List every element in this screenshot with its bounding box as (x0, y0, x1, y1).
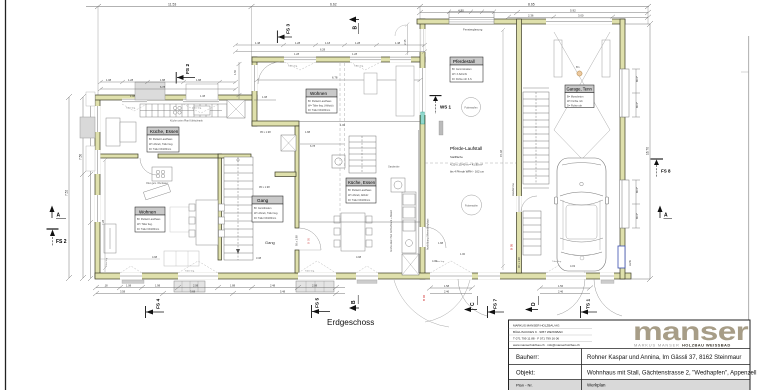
door arc bottom house entry (394, 280, 470, 327)
gray annex block top (135, 82, 165, 100)
svg-text:Erdgeschoss: Erdgeschoss (327, 318, 374, 327)
door arc party wall stable (425, 227, 446, 248)
hatched duct hall (281, 135, 296, 151)
door arc TS1 (594, 279, 622, 316)
room label box Wohnen bottom-left (135, 207, 165, 232)
svg-text:2.35: 2.35 (403, 39, 407, 45)
svg-text:2.08: 2.08 (193, 284, 199, 288)
svg-text:D= Täfer NK180mm: D= Täfer NK180mm (137, 228, 159, 231)
stable-garage divider wall (517, 19, 522, 273)
garage door leaf left (554, 40, 562, 77)
Erdgeschoss title (327, 318, 374, 327)
svg-text:80.5*: 80.5* (635, 187, 639, 193)
svg-text:80.5*: 80.5* (635, 102, 639, 108)
svg-text:7.28: 7.28 (101, 219, 105, 225)
window openings top-left wall (122, 99, 219, 105)
svg-text:3.38: 3.38 (256, 256, 262, 260)
svg-text:manser: manser (633, 316, 748, 346)
dimension labels above house top-right wall (255, 41, 401, 52)
entrance step left (174, 281, 205, 292)
svg-text:D= Fichte roh: D= Fichte roh (567, 105, 583, 108)
room label box Kueche Essen left (147, 127, 179, 152)
Heubuehne rotated text (511, 183, 515, 196)
svg-text:AZK: AZK (628, 260, 632, 266)
svg-text:B 05: B 05 (307, 237, 311, 244)
svg-text:D= Fichte roh 3-S: D= Fichte roh 3-S (452, 78, 472, 81)
svg-text:T 071 799 11 88 · F 071 799: T 071 799 11 88 · F 071 799 16 06 (513, 337, 559, 341)
room label box Gang (252, 196, 283, 222)
window opening V marks top walls (122, 62, 381, 113)
dimension labels above house top-left wall (106, 78, 202, 89)
barn staircase upper dims (523, 88, 549, 188)
title block frame (509, 320, 751, 390)
svg-text:Küche, Essen: Küche, Essen (348, 180, 376, 185)
svg-text:.18: .18 (104, 284, 108, 288)
room label box Pferdestall (450, 57, 483, 82)
svg-text:95 x 1.98: 95 x 1.98 (260, 130, 271, 134)
red label B05 barn (510, 243, 514, 250)
window box ticks barn right wall (632, 69, 640, 228)
svg-text:B= Parkett Landhaus: B= Parkett Landhaus (308, 100, 332, 103)
dashed line corridor (418, 130, 420, 273)
window step wall (252, 65, 258, 91)
FS 4 marker bottom (146, 299, 165, 318)
futterraufe circle 1 (462, 98, 481, 117)
svg-text:1.08: 1.08 (130, 94, 136, 98)
Bn circle car front (580, 256, 584, 260)
svg-text:6.78: 6.78 (310, 144, 316, 148)
door arc garage divider (521, 196, 537, 212)
svg-text:1.48: 1.48 (395, 41, 401, 45)
svg-text:1.18: 1.18 (325, 41, 331, 45)
svg-text:A: A (664, 213, 668, 219)
porch door arc (395, 25, 406, 36)
FS 7 marker bottom (488, 299, 505, 318)
svg-text:2.46: 2.46 (444, 290, 450, 294)
svg-text:11.53: 11.53 (168, 3, 176, 7)
wall sample mark WS1 (439, 121, 443, 135)
room label box Kueche Essen right (346, 178, 376, 203)
svg-text:B= Gumtiboden: B= Gumtiboden (254, 207, 272, 210)
svg-text:FS 2: FS 2 (56, 239, 67, 245)
svg-text:D= Täfer NK180mm: D= Täfer NK180mm (149, 148, 171, 151)
svg-text:Futterraufen: Futterraufen (465, 204, 479, 207)
teal mark party wall (421, 112, 425, 124)
interior wall hall top horizontal (252, 121, 299, 126)
house staircase (224, 157, 253, 260)
porch dim house-barn (405, 23, 409, 56)
svg-text:7.50: 7.50 (79, 154, 83, 160)
barn staircase upper (523, 92, 549, 184)
right unit staircase (349, 136, 376, 173)
svg-text:www.manserholzbau.ch · info@: www.manserholzbau.ch · info@manserholzba… (513, 343, 580, 347)
svg-text:90 x 1.98: 90 x 1.98 (517, 257, 521, 268)
sideboard annotation (146, 182, 168, 185)
svg-text:HOLZBAU WEISSBAD: HOLZBAU WEISSBAD (682, 343, 731, 348)
svg-text:Täfer lieg.: Täfer lieg. (305, 270, 315, 273)
manser logo caption (634, 343, 731, 348)
svg-text:B= Parkett Landhaus: B= Parkett Landhaus (149, 138, 173, 141)
A section marker right (658, 206, 673, 219)
dimension ticks above house top-left wall (98, 80, 238, 91)
svg-text:W= Abrieb, Altholz: W= Abrieb, Altholz (348, 194, 369, 197)
left dimension line 1 (66, 94, 72, 281)
svg-text:B= Parkett Landhaus: B= Parkett Landhaus (348, 189, 372, 192)
top extension line right (647, 7, 649, 25)
svg-text:95 x 1.98: 95 x 1.98 (259, 185, 270, 189)
svg-text:FS 8: FS 8 (661, 169, 671, 174)
svg-text:Küche, Essen: Küche, Essen (150, 129, 179, 134)
svg-text:A: A (57, 213, 61, 219)
dining table left unit (189, 200, 225, 245)
svg-text:2.08: 2.08 (312, 284, 318, 288)
svg-text:8.65: 8.65 (528, 3, 535, 7)
svg-text:C: C (470, 302, 476, 306)
svg-text:6.28: 6.28 (320, 48, 326, 52)
kitchen counter left unit (140, 104, 227, 117)
svg-text:4.98: 4.98 (152, 255, 158, 259)
kitchen annotation text (170, 120, 203, 123)
left dimension line 3 label (87, 126, 91, 132)
garage door leaf right (602, 40, 610, 77)
interior wall stairwell top (218, 154, 251, 158)
Fensterglasung label (463, 28, 483, 32)
svg-text:1.28: 1.28 (295, 41, 301, 45)
left dimension line 1 label (65, 190, 69, 196)
car hood lines (563, 200, 600, 250)
red label B06 bottom (422, 294, 426, 301)
svg-text:3.58: 3.58 (120, 290, 126, 294)
dining table right unit (334, 213, 372, 251)
svg-text:B= Parkett Landhaus: B= Parkett Landhaus (137, 218, 161, 221)
svg-text:4.20 x 10.40 m = 41.80 m²: 4.20 x 10.40 m = 41.80 m² (450, 163, 483, 167)
svg-text:Täfer lieg.: Täfer lieg. (185, 270, 195, 273)
barn top dimension row 1 labels (458, 9, 576, 13)
svg-text:B= Gummimatten: B= Gummimatten (452, 68, 472, 71)
svg-text:Objekt:: Objekt: (516, 371, 535, 377)
Gang floor text (265, 240, 275, 245)
dashed beam line hall (340, 63, 345, 222)
svg-text:1.28: 1.28 (352, 52, 358, 56)
TS 1 marker bottom (581, 299, 598, 318)
room label box Wohnen top-right (306, 89, 337, 113)
bottom wall (95, 273, 631, 279)
door arc bottom stable entry (458, 279, 487, 316)
barn top dimension row 1 (417, 10, 651, 15)
svg-text:Rohner Kaspar und Annina, Im G: Rohner Kaspar und Annina, Im Gässli 37, … (587, 355, 741, 361)
svg-text:1.28: 1.28 (128, 78, 134, 82)
svg-text:D= Täfer NK180mm: D= Täfer NK180mm (308, 109, 330, 112)
title row Plan-Nr (509, 380, 750, 390)
D section marker bottom (525, 296, 539, 312)
window openings left wall (95, 106, 101, 222)
sheet right border (748, 36, 750, 390)
bottom dimension cluster barn 2 (537, 286, 593, 294)
svg-text:6.78: 6.78 (160, 85, 166, 89)
svg-text:Heubühne: Heubühne (511, 183, 515, 196)
barn staircase lower (523, 211, 541, 255)
svg-text:6.62: 6.62 (330, 3, 337, 7)
kitchen counter right unit (402, 192, 416, 253)
svg-text:1.00: 1.00 (460, 252, 466, 256)
porch dim label (403, 39, 407, 45)
svg-text:Täfer lieg.: Täfer lieg. (192, 107, 202, 110)
title block address cell (509, 324, 593, 348)
svg-text:Futterraufen: Futterraufen (464, 106, 478, 109)
blue AZK box (618, 246, 632, 268)
svg-text:1.56: 1.56 (558, 284, 564, 288)
svg-text:2.48: 2.48 (270, 284, 276, 288)
FS 8 marker (651, 159, 672, 177)
svg-text:15.48: 15.48 (499, 150, 503, 157)
window boxes barn right wall (620, 69, 629, 228)
room label box Garage Tenn (565, 85, 594, 108)
svg-text:Stallfläche: Stallfläche (450, 155, 463, 159)
svg-text:Ausbildung Wienerberghaus: Ausbildung Wienerberghaus (427, 218, 430, 250)
svg-text:1.00: 1.00 (340, 123, 346, 127)
svg-text:1.88: 1.88 (438, 241, 444, 245)
A section marker left (50, 206, 67, 219)
door arc hall (299, 228, 321, 250)
svg-text:WS 1: WS 1 (440, 105, 451, 110)
svg-text:1.28: 1.28 (355, 41, 361, 45)
hatched storage right unit (402, 254, 419, 275)
svg-text:B: B (351, 300, 357, 304)
title row Bauherr (516, 355, 741, 361)
sofa bottom-left unit (104, 224, 116, 253)
svg-text:80.5*: 80.5* (635, 213, 639, 219)
window party wall (420, 68, 426, 115)
svg-text:W= Täfer lieg.: W= Täfer lieg. (137, 223, 153, 226)
top extension line barn (419, 7, 421, 20)
bottom dimension cluster barn 1 labels (444, 284, 450, 294)
B section marker bottom (349, 295, 359, 311)
svg-text:3.00: 3.00 (578, 13, 584, 17)
svg-text:Bn: Bn (576, 65, 580, 69)
left dimension line 3 (88, 95, 93, 281)
svg-text:4.03: 4.03 (432, 259, 438, 263)
svg-text:Garage, Tenn: Garage, Tenn (567, 87, 593, 92)
svg-text:1.38: 1.38 (200, 94, 206, 98)
openings bottom wall (120, 273, 614, 280)
opening barn top wall garage door (546, 19, 612, 25)
garderobe text (388, 166, 400, 169)
dimension ticks above house top-right wall (233, 43, 427, 54)
svg-text:Ofen gem. Ofenbauer: Ofen gem. Ofenbauer (146, 182, 168, 185)
party wall house/stable (420, 19, 425, 279)
car (555, 158, 609, 271)
B section marker top (349, 17, 359, 35)
opening party wall door (420, 227, 426, 247)
barn right wall (620, 19, 625, 279)
interior wall hall vertical upper (295, 126, 299, 228)
car roof rect (566, 205, 597, 239)
svg-text:1.50: 1.50 (233, 69, 237, 75)
opening barn top wall glazing (449, 18, 494, 25)
house top-right wall (252, 57, 425, 62)
svg-text:4.98: 4.98 (356, 255, 362, 259)
svg-text:1.08: 1.08 (262, 95, 268, 99)
bottom dimension cluster barn 1 (427, 286, 475, 294)
svg-text:bis 4 Pferde WRH - 162 cm: bis 4 Pferde WRH - 162 cm (450, 170, 485, 174)
svg-text:Pferdestall: Pferdestall (453, 59, 475, 64)
svg-text:5.48: 5.48 (280, 290, 286, 294)
svg-text:Pferde-Laufstall: Pferde-Laufstall (450, 146, 482, 151)
house left wall (95, 97, 100, 278)
interior wall hall vertical lower (295, 250, 299, 273)
bottom dimension labels house (104, 284, 318, 294)
svg-text:2.46: 2.46 (558, 290, 564, 294)
kitchen rotated annotation right unit (390, 210, 393, 252)
svg-text:TS 1: TS 1 (586, 299, 592, 309)
svg-text:MARKUS MANSER: MARKUS MANSER (634, 343, 680, 348)
svg-text:FS 4: FS 4 (156, 299, 162, 309)
svg-text:Gang: Gang (257, 198, 269, 203)
svg-text:3.68: 3.68 (190, 290, 196, 294)
entrance step right (296, 281, 334, 292)
FS 2 marker left (47, 229, 67, 246)
svg-text:Küche unten Plan Kühlschrank: Küche unten Plan Kühlschrank (170, 120, 203, 123)
FS 2 marker top (176, 64, 195, 84)
C section marker bottom (464, 296, 478, 312)
svg-text:Fensterglasung: Fensterglasung (463, 28, 483, 32)
svg-text:2.36: 2.36 (528, 13, 534, 17)
gang bottom line (299, 221, 420, 223)
svg-text:W= Täfer lieg. (Altholz): W= Täfer lieg. (Altholz) (308, 105, 334, 108)
interior dim label left unit (101, 219, 105, 225)
sofa right unit wohnen (364, 66, 414, 116)
svg-text:4.03: 4.03 (570, 264, 576, 268)
interior wall living/kitchen left unit (100, 154, 138, 158)
svg-text:Garderobe: Garderobe (388, 166, 400, 169)
red label B05 hall (307, 237, 311, 244)
top extension line left (97, 7, 99, 98)
gray terrace left (80, 117, 95, 138)
svg-text:FS 5: FS 5 (315, 298, 321, 308)
right dimension label (646, 147, 650, 155)
svg-text:Täfer lieg.: Täfer lieg. (126, 107, 136, 110)
door arc bottom garage entry (557, 279, 585, 315)
gang top line (299, 121, 420, 123)
svg-text:W= Fichte roh: W= Fichte roh (567, 100, 583, 103)
futterraufe circle 2 (462, 195, 482, 215)
house step wall (252, 57, 257, 126)
svg-text:1.48: 1.48 (255, 41, 261, 45)
FS 3 marker top (277, 24, 292, 43)
svg-text:1.88: 1.88 (160, 78, 166, 82)
svg-text:Gang: Gang (265, 240, 275, 245)
garage door X braces (554, 32, 610, 158)
casing left wall 2 (86, 146, 95, 171)
taefer annotations (105, 65, 562, 273)
bench wohnen (164, 251, 199, 266)
top extension line mid (251, 7, 253, 58)
interior wall vestibule south (275, 172, 296, 177)
svg-text:D: D (531, 302, 537, 306)
svg-text:Wohnhaus mit Stall, Gächtenstr: Wohnhaus mit Stall, Gächtenstrasse 2, "W… (587, 371, 756, 377)
svg-text:1.98: 1.98 (155, 284, 161, 288)
window box dims barn right wall (635, 76, 639, 219)
sheet left border (5, 0, 7, 390)
svg-text:MARKUS MANSER HOLZBAU AG: MARKUS MANSER HOLZBAU AG (513, 324, 560, 328)
rug wohnen (170, 207, 189, 232)
svg-text:Täfer lieg.: Täfer lieg. (354, 65, 364, 68)
svg-text:1.08: 1.08 (126, 284, 132, 288)
svg-text:D= Täfer NK180mm: D= Täfer NK180mm (254, 217, 276, 220)
svg-text:Wohnen: Wohnen (310, 91, 327, 96)
Pferde-Laufstall text (450, 146, 485, 174)
window openings top-right wall (284, 57, 411, 63)
svg-text:W= Abrieb, Täfer lieg.: W= Abrieb, Täfer lieg. (254, 212, 278, 215)
svg-text:FS 7: FS 7 (493, 299, 499, 309)
svg-text:B= Monobeton: B= Monobeton (567, 96, 584, 99)
stable interior dim label (499, 150, 503, 157)
svg-text:Wohnen: Wohnen (139, 210, 156, 215)
svg-text:1.08: 1.08 (106, 78, 112, 82)
svg-text:1.88: 1.88 (230, 284, 236, 288)
in-plan dimension line wohnen (237, 62, 345, 144)
title row Objekt (516, 371, 756, 377)
dashed roofline stable (425, 162, 516, 164)
door arc wohnen top (258, 62, 280, 84)
svg-text:W= Abrieb, Täfer lieg.: W= Abrieb, Täfer lieg. (149, 143, 173, 146)
house staircase arrow (236, 159, 240, 254)
svg-text:Werkplan: Werkplan (587, 383, 606, 388)
house top-left wall (95, 95, 257, 100)
svg-text:Täfer lieg.: Täfer lieg. (288, 65, 298, 68)
appliance square hall (332, 155, 345, 168)
right edge tick (741, 71, 749, 73)
white porch rect top (186, 84, 218, 100)
stable interior dim line (501, 28, 505, 270)
window opening V marks bottom wall (120, 261, 586, 273)
sill mark bottom 2 (357, 280, 377, 283)
FS 5 marker bottom (312, 298, 331, 318)
barn top wall (417, 19, 625, 24)
svg-text:95 x 1.98: 95 x 1.98 (295, 235, 299, 246)
svg-text:Küche oben Plan Kühlschrank +: Küche oben Plan Kühlschrank + Abstell (390, 210, 393, 252)
svg-text:5.92: 5.92 (570, 9, 576, 13)
svg-text:Täfer lieg.: Täfer lieg. (552, 260, 562, 263)
svg-text:16.70: 16.70 (646, 147, 650, 155)
angled sideboard wohnen (143, 184, 170, 200)
svg-text:B: B (353, 26, 359, 30)
svg-text:1.28: 1.28 (294, 52, 300, 56)
in-plan dimension scatter (130, 52, 576, 268)
bottom dimension cluster barn 2 labels (558, 284, 564, 294)
casing left wall 1 (86, 92, 95, 106)
bottom dimension row 2 house (93, 291, 345, 296)
door arc kitchen left (140, 158, 157, 175)
svg-text:6.78: 6.78 (332, 76, 338, 80)
window party wall upper (420, 29, 426, 52)
interior dim chain left unit (103, 158, 107, 272)
left dimension line 2 (80, 94, 86, 281)
WS 1 marker (430, 96, 452, 114)
svg-text:B 06: B 06 (422, 294, 426, 301)
dim line 4.98 (99, 258, 160, 260)
sofa top-left unit (106, 118, 136, 146)
opening divider wall (516, 196, 522, 212)
top dimension line (86, 4, 651, 9)
svg-text:7.52: 7.52 (65, 190, 69, 196)
svg-text:D= Täfer NK180mm: D= Täfer NK180mm (348, 199, 370, 202)
svg-text:B 05: B 05 (510, 243, 514, 250)
svg-text:FS 2: FS 2 (185, 64, 191, 74)
appliance fridge right unit (391, 178, 405, 192)
svg-text:1.88: 1.88 (196, 78, 202, 82)
svg-text:Täfer lieg.: Täfer lieg. (105, 257, 108, 267)
